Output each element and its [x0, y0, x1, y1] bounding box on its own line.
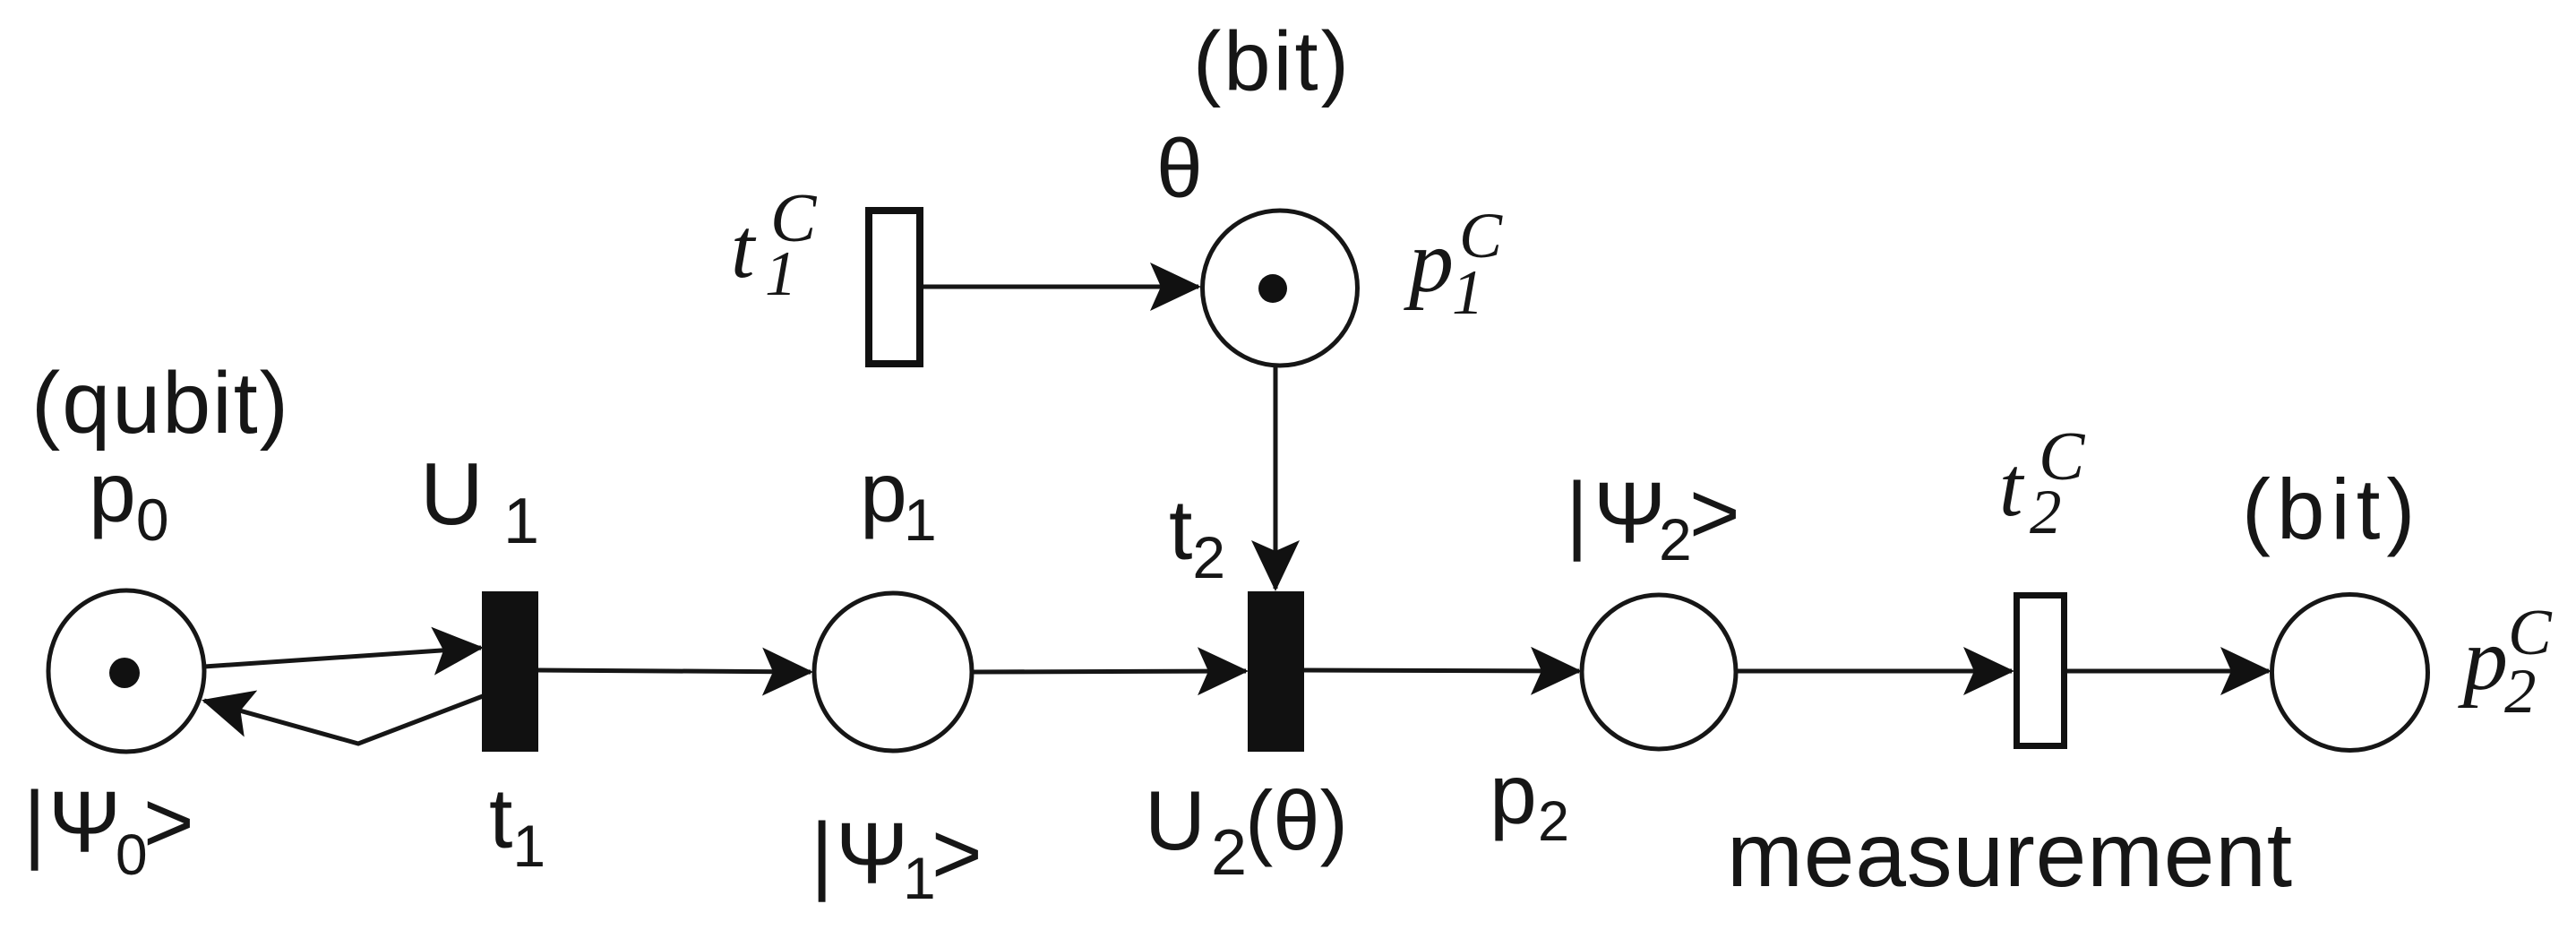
svg-text:U1: U1 [420, 444, 539, 557]
svg-text:p2: p2 [1490, 747, 1569, 853]
svg-text:2: 2 [2504, 657, 2537, 727]
svg-text:|Ψ0>: |Ψ0> [23, 773, 194, 887]
svg-text:p: p [1404, 211, 1454, 311]
svg-text:t1: t1 [489, 771, 545, 879]
svg-text:|Ψ1>: |Ψ1> [811, 805, 983, 911]
svg-text:θ: θ [1156, 122, 1203, 215]
svg-text:t2: t2 [1169, 483, 1225, 590]
svg-text:measurement: measurement [1727, 804, 2293, 906]
svg-text:(bit): (bit) [2242, 462, 2421, 558]
svg-text:1: 1 [765, 239, 797, 309]
svg-text:t: t [731, 201, 757, 296]
svg-text:|Ψ2>: |Ψ2> [1566, 464, 1740, 573]
svg-text:U2(θ): U2(θ) [1145, 773, 1348, 889]
svg-text:(qubit): (qubit) [31, 354, 290, 452]
svg-text:1: 1 [1452, 258, 1484, 328]
svg-text:p: p [2458, 609, 2508, 709]
svg-text:p0: p0 [89, 445, 169, 553]
svg-text:p1: p1 [860, 445, 937, 553]
svg-text:t: t [1999, 439, 2025, 534]
svg-text:(bit): (bit) [1193, 14, 1352, 108]
svg-text:2: 2 [2030, 478, 2062, 547]
